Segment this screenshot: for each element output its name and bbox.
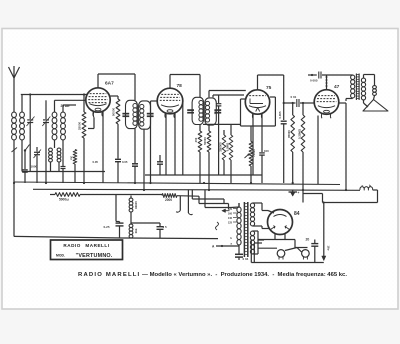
wire 47 plate bbox=[339, 102, 346, 104]
wire top cap 75 bbox=[257, 75, 259, 90]
potentiometer 70000 bbox=[245, 126, 253, 183]
capacitor 0.5 bbox=[157, 223, 164, 238]
capacitor 0.05 bbox=[132, 163, 138, 165]
svg-text:5000ω: 5000ω bbox=[59, 198, 69, 202]
wire bbox=[21, 140, 23, 172]
wire stair 2 bbox=[198, 196, 200, 203]
svg-text:”VERTUMNO.: ”VERTUMNO. bbox=[75, 253, 112, 259]
svg-text:47: 47 bbox=[334, 84, 340, 90]
wire pin bbox=[92, 112, 95, 118]
wire bbox=[283, 75, 285, 120]
switch bbox=[12, 148, 18, 153]
wire bbox=[54, 140, 56, 148]
secondary HV bbox=[250, 203, 254, 208]
primary taps bbox=[228, 208, 237, 246]
svg-text:0 04: 0 04 bbox=[243, 257, 249, 261]
tube 75 bbox=[245, 85, 271, 118]
svg-text:50000: 50000 bbox=[203, 137, 207, 145]
svg-text:0.5MΩ: 0.5MΩ bbox=[225, 142, 229, 151]
wire HV bottom bbox=[253, 225, 263, 227]
capacitor 0.01 bbox=[296, 99, 298, 107]
RF transformer L2 secondary bbox=[61, 112, 66, 117]
mains wire bbox=[216, 245, 239, 247]
resistor 50000 bbox=[208, 125, 210, 132]
wire bbox=[377, 190, 379, 203]
wire bbox=[294, 240, 296, 248]
svg-text:RADIO MARELLI — Modello « Vert: RADIO MARELLI — Modello « Vertumno ». - … bbox=[78, 272, 347, 278]
svg-text:0 005: 0 005 bbox=[310, 79, 318, 83]
bus mid bbox=[145, 174, 262, 176]
resistor 450 bbox=[199, 125, 201, 132]
svg-text:0.005: 0.005 bbox=[278, 111, 282, 118]
wire top cap 47 bbox=[325, 75, 328, 90]
wire bbox=[13, 140, 15, 183]
svg-text:b: b bbox=[369, 184, 371, 188]
wire 78 plate drop bbox=[182, 103, 184, 175]
resistor 0.5 bbox=[230, 124, 232, 135]
wire bbox=[80, 194, 116, 196]
svg-text:250000: 250000 bbox=[218, 142, 222, 152]
RF transformer L2 primary bbox=[52, 112, 57, 117]
resistor 50000 screen bbox=[110, 96, 121, 183]
wire HV top bbox=[253, 202, 263, 204]
wire bbox=[259, 247, 278, 249]
svg-text:75: 75 bbox=[266, 85, 272, 91]
choke 10000 bbox=[129, 196, 133, 238]
svg-text:84: 84 bbox=[294, 211, 300, 217]
AC squiggle bbox=[216, 222, 219, 230]
wire cathode bbox=[102, 112, 104, 184]
svg-text:0.05: 0.05 bbox=[93, 160, 99, 164]
wire pins 84 bbox=[274, 234, 276, 239]
wire stair 1 bbox=[191, 189, 193, 199]
capacitor 0.005 bbox=[281, 120, 287, 122]
svg-text:450: 450 bbox=[194, 137, 198, 142]
IF transformer 1 bbox=[122, 100, 153, 129]
svg-text:2000: 2000 bbox=[165, 198, 172, 202]
voice coil bbox=[373, 86, 377, 89]
resistor 25000 bbox=[82, 112, 86, 138]
resistor 250000 bbox=[223, 130, 225, 135]
svg-text:c: c bbox=[362, 184, 364, 188]
wire bbox=[62, 105, 64, 112]
svg-text:3ω: 3ω bbox=[70, 156, 74, 161]
svg-text:20: 20 bbox=[306, 238, 310, 242]
antenna transformer L1 secondary bbox=[20, 112, 25, 117]
field coil bbox=[360, 184, 378, 190]
wire bbox=[374, 96, 375, 100]
ground loop bottom bbox=[14, 236, 122, 238]
resistor 85000 bbox=[291, 102, 295, 183]
wire plate drop bbox=[143, 129, 145, 190]
wire bbox=[54, 100, 56, 112]
svg-text:160: 160 bbox=[228, 213, 233, 216]
wire primary top bbox=[238, 203, 240, 207]
svg-text:25000: 25000 bbox=[78, 121, 82, 130]
wire 75 pins bbox=[252, 114, 254, 176]
secondary LV bbox=[250, 231, 254, 236]
resistor 5000 bbox=[55, 193, 80, 197]
pilot lamp 2 bbox=[302, 250, 310, 260]
IF transformer 2 bbox=[187, 97, 221, 125]
trimmer cap bbox=[61, 166, 66, 168]
heater line right bbox=[303, 193, 323, 195]
antenna transformer L1 primary bbox=[12, 112, 17, 117]
pilot lamp 1 bbox=[277, 250, 285, 260]
wire LV bbox=[253, 230, 259, 232]
wire arrow drop bbox=[322, 203, 326, 261]
svg-text:0.05: 0.05 bbox=[122, 160, 128, 164]
capacitor 0.005 top bbox=[318, 72, 320, 79]
speaker cone bbox=[363, 100, 388, 112]
heater line bbox=[50, 194, 55, 196]
svg-text:16σ: 16σ bbox=[327, 245, 331, 250]
svg-text:10000: 10000 bbox=[134, 201, 138, 209]
svg-text:0.25MΩ: 0.25MΩ bbox=[298, 128, 302, 139]
mains arrow bbox=[223, 210, 230, 212]
output transformer secondary bbox=[361, 78, 365, 82]
power transformer primary bbox=[237, 203, 241, 253]
wire bbox=[302, 190, 304, 203]
svg-text:220: 220 bbox=[228, 208, 233, 211]
bus AVC left bbox=[22, 171, 105, 173]
svg-text:MOD.: MOD. bbox=[56, 254, 65, 258]
svg-text:RADIO MARELLI: RADIO MARELLI bbox=[63, 243, 109, 248]
ground bbox=[289, 190, 300, 196]
wire AVC line bbox=[203, 123, 241, 125]
stamp box RADIO MARELLI bbox=[51, 240, 123, 260]
svg-text:6A7: 6A7 bbox=[105, 81, 114, 87]
tube 78 bbox=[157, 83, 183, 118]
variable capacitor C2 bbox=[42, 100, 50, 183]
oscillator coil L3b bbox=[57, 148, 61, 151]
tube 6A7 bbox=[86, 81, 114, 117]
capacitor 150 bbox=[216, 95, 222, 175]
wire bbox=[134, 129, 136, 163]
wire bbox=[134, 74, 136, 100]
wire 47 pin drop bbox=[317, 116, 319, 185]
band switch bbox=[22, 145, 29, 184]
heater hooks bbox=[176, 189, 192, 214]
wire bbox=[363, 75, 365, 79]
output transformer primary bbox=[351, 75, 355, 80]
bus B+ bbox=[33, 189, 360, 190]
wire plate 75 bbox=[284, 102, 296, 104]
antenna bbox=[9, 66, 20, 112]
wire grid bus top bbox=[21, 94, 87, 96]
wire bbox=[345, 99, 347, 102]
wire bbox=[170, 74, 200, 76]
output transformer core bbox=[356, 74, 360, 101]
wire bbox=[345, 103, 347, 190]
wire diode line 1 bbox=[208, 91, 210, 98]
rectifier tube 84 bbox=[268, 210, 293, 235]
svg-text:0 01: 0 01 bbox=[291, 95, 297, 99]
svg-text:1000: 1000 bbox=[31, 165, 38, 169]
svg-text:0 5: 0 5 bbox=[163, 225, 168, 229]
wire grid bus 2 bbox=[55, 99, 87, 101]
resistor 0.25 bbox=[301, 102, 305, 190]
svg-text:150: 150 bbox=[214, 109, 218, 114]
wire 75 right frame bbox=[274, 97, 276, 126]
svg-text:550: 550 bbox=[134, 229, 138, 234]
padder trimmer bbox=[34, 147, 42, 183]
svg-text:125: 125 bbox=[228, 222, 233, 225]
resistor R osc bbox=[73, 150, 77, 165]
capacitor 100 bbox=[259, 152, 265, 154]
svg-text:50000: 50000 bbox=[112, 107, 116, 116]
wire 78 cathode bbox=[165, 113, 167, 175]
wire bbox=[363, 100, 365, 103]
wire bbox=[21, 95, 23, 113]
svg-text:0-25: 0-25 bbox=[104, 225, 110, 229]
wire diode line 2 bbox=[213, 94, 244, 96]
capacitor 0.25 bbox=[116, 222, 124, 224]
resistor 2000 bbox=[162, 194, 177, 198]
wire bbox=[115, 195, 117, 222]
svg-text:78: 78 bbox=[177, 83, 183, 89]
oscillator coil L3a bbox=[49, 148, 53, 151]
svg-text:85000: 85000 bbox=[287, 130, 291, 138]
wire return bbox=[323, 202, 378, 204]
wire stair 3 bbox=[204, 189, 206, 207]
power transformer core bbox=[244, 202, 248, 257]
wire grid line bbox=[308, 74, 317, 76]
capacitor 20 bbox=[311, 240, 318, 263]
wire bbox=[98, 73, 135, 75]
wire 78 left bbox=[151, 100, 158, 102]
wire top cap 6A7 bbox=[97, 74, 99, 88]
ground loop left bbox=[13, 183, 15, 237]
wire bbox=[258, 74, 284, 76]
trimmer C1 bbox=[27, 93, 35, 171]
svg-text:+: + bbox=[298, 191, 300, 195]
capacitor bias bbox=[157, 161, 163, 163]
wire bbox=[285, 248, 297, 251]
wire plate stubs bbox=[268, 211, 274, 214]
75 diode plates bbox=[250, 99, 263, 104]
tube 47 bbox=[314, 84, 339, 118]
bus ground A bbox=[14, 182, 340, 185]
capacitor 0.04 bbox=[235, 253, 243, 260]
bus rectifier bottom bbox=[258, 239, 295, 241]
wire top cap 78 bbox=[169, 75, 171, 89]
svg-text:100: 100 bbox=[264, 149, 269, 153]
wire tap bbox=[131, 222, 160, 224]
wire bbox=[116, 194, 162, 196]
wire 75 left frame bbox=[241, 99, 252, 126]
svg-text:140: 140 bbox=[228, 217, 233, 220]
wire bbox=[199, 75, 201, 98]
wire lamp frame bbox=[251, 240, 323, 263]
wire bbox=[177, 195, 199, 198]
